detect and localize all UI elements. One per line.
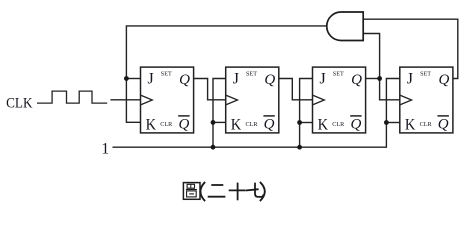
svg-text:1: 1 [101,141,109,158]
svg-text:CLK: CLK [6,96,33,112]
